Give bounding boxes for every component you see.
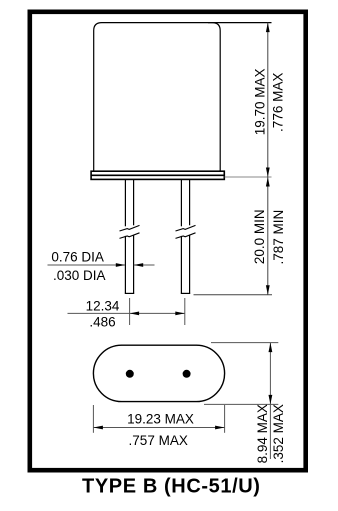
svg-text:.757 MAX: .757 MAX bbox=[129, 433, 188, 448]
svg-text:.030 DIA: .030 DIA bbox=[53, 268, 106, 283]
dimension 8.94 MAX: extension lines bbox=[204, 343, 278, 405]
dimension 12.34 lead spacing: extension lines bbox=[130, 298, 185, 325]
svg-text:.486: .486 bbox=[89, 315, 115, 330]
pin 2 dot (bottom view) bbox=[183, 370, 191, 378]
dimension 19.23 MAX: extension lines bbox=[93, 405, 224, 433]
lead 2 break symbol bbox=[176, 225, 196, 238]
crystal can base flange bbox=[91, 171, 224, 179]
svg-text:TYPE B (HC-51/U): TYPE B (HC-51/U) bbox=[82, 476, 261, 498]
svg-text:0.76 DIA: 0.76 DIA bbox=[51, 250, 104, 265]
svg-text:.787 MIN: .787 MIN bbox=[271, 210, 286, 265]
lead 1 break symbol bbox=[120, 225, 140, 238]
dimension line 12.34 bbox=[68, 312, 185, 316]
extension line: lead end bbox=[194, 294, 273, 296]
dimension line 19.70 MAX (can height) bbox=[266, 23, 270, 177]
svg-text:.352 MAX: .352 MAX bbox=[271, 404, 286, 463]
leader: lead diameter with arrows bbox=[48, 263, 155, 267]
svg-text:.776 MAX: .776 MAX bbox=[271, 73, 286, 132]
bottom view outline (stadium shape) bbox=[93, 345, 224, 401]
svg-text:20.0 MIN: 20.0 MIN bbox=[252, 209, 267, 264]
dimension line 19.23 MAX bbox=[93, 426, 224, 430]
dimension line 20.0 MIN (lead length) bbox=[266, 177, 270, 295]
svg-text:19.23 MAX: 19.23 MAX bbox=[127, 411, 194, 426]
svg-text:8.94 MAX: 8.94 MAX bbox=[255, 404, 270, 463]
svg-text:19.70 MAX: 19.70 MAX bbox=[253, 69, 268, 136]
lead 2 (right) bbox=[181, 180, 190, 294]
lead 1 (left) bbox=[125, 180, 134, 294]
svg-text:12.34: 12.34 bbox=[86, 299, 120, 314]
crystal can body (side view) bbox=[94, 23, 221, 172]
dimension line 8.94 MAX bbox=[269, 343, 273, 459]
extension line: can top bbox=[208, 22, 272, 24]
pin 1 dot (bottom view) bbox=[126, 370, 134, 378]
extension line: flange bottom bbox=[225, 176, 272, 178]
